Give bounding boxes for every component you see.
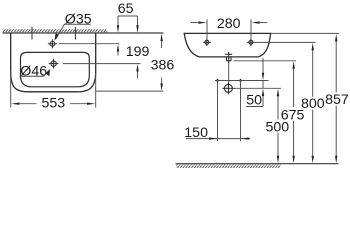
basin front extension line bbox=[96, 90, 164, 92]
basin top extension line bbox=[271, 32, 340, 34]
svg-text:857: 857 bbox=[325, 92, 349, 108]
supply line left vertical bbox=[217, 81, 219, 142]
supply line right vertical bbox=[240, 81, 242, 142]
svg-text:Ø35: Ø35 bbox=[65, 11, 92, 27]
wall hatching (top view) bbox=[3, 29, 108, 32]
washbasin inner bowl outline (top view) bbox=[21, 52, 90, 86]
svg-text:553: 553 bbox=[41, 96, 65, 112]
supply connection left (diamond) bbox=[216, 79, 220, 83]
supply connection right (diamond) bbox=[239, 79, 243, 83]
waste extension line bbox=[235, 87, 282, 89]
washbasin outer outline (top view) bbox=[11, 33, 96, 92]
drain fitting below basin bbox=[225, 52, 232, 63]
washbasin outline (front profile) bbox=[184, 33, 271, 57]
mounting hole left bbox=[203, 39, 210, 46]
faucet extension line bbox=[59, 43, 119, 45]
floor line bbox=[176, 163, 339, 165]
wall mount tick right bbox=[74, 27, 76, 40]
faucet hole (top view) bbox=[48, 39, 57, 48]
waste trap connection (circle-cross) bbox=[222, 82, 234, 94]
drain extension line bbox=[63, 63, 141, 65]
drain center line down to trap bbox=[228, 63, 230, 83]
wall mount tick left bbox=[31, 27, 33, 40]
supplies extension line bbox=[215, 80, 269, 82]
holes extension line bbox=[255, 41, 316, 43]
fitting extension line bbox=[234, 60, 297, 62]
svg-text:199: 199 bbox=[126, 44, 150, 60]
mounting hole right bbox=[247, 39, 254, 46]
svg-text:280: 280 bbox=[217, 16, 241, 32]
svg-text:Ø46: Ø46 bbox=[20, 64, 47, 80]
floor hatching bbox=[176, 164, 281, 168]
svg-text:65: 65 bbox=[118, 1, 134, 17]
svg-text:386: 386 bbox=[151, 58, 175, 74]
wall line bbox=[3, 32, 164, 34]
drain hole (top view) bbox=[49, 59, 59, 69]
